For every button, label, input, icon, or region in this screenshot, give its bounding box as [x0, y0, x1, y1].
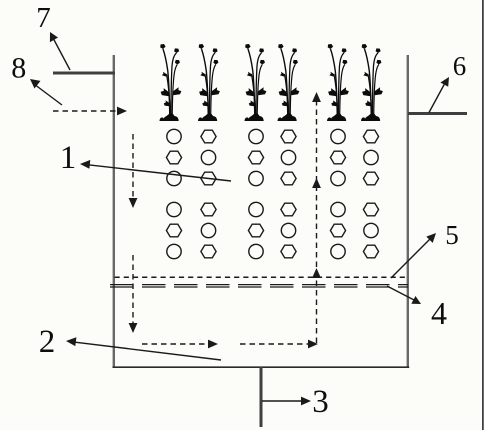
media hexagon c6r3 [363, 172, 378, 185]
media hexagon c4r1 [281, 130, 296, 143]
media hexagon c3r2 [248, 151, 263, 164]
svg-text:6: 6 [453, 51, 467, 81]
svg-text:5: 5 [445, 220, 459, 250]
media circle c3r1 [249, 129, 263, 143]
svg-text:3: 3 [312, 384, 329, 420]
media circle c2r2 [201, 150, 215, 164]
media hexagon c2r1 [201, 130, 216, 143]
media hexagon c5r5 [330, 224, 345, 237]
dotted support plate line 5 [115, 276, 409, 278]
inlet pipe 7 [53, 72, 115, 75]
plant 2 [198, 44, 220, 121]
leader arrow to 1 [80, 160, 231, 181]
leader arrow to 3 [262, 397, 311, 406]
plant 1 [160, 44, 182, 121]
media hexagon c1r5 [166, 224, 181, 237]
media hexagon c4r3 [281, 172, 296, 185]
leader arrow to 6 [429, 77, 449, 113]
scan border line right edge [482, 0, 484, 430]
leader arrow to 4 [387, 286, 421, 304]
plant 4 [278, 44, 300, 121]
bottom flow dashed arrow right [240, 340, 318, 349]
svg-text:2: 2 [39, 324, 56, 360]
media circle c3r4 [249, 202, 263, 216]
leader arrow to 2 [66, 337, 221, 360]
media circle c6r2 [364, 150, 378, 164]
media hexagon c2r6 [201, 245, 216, 258]
media circle c3r3 [249, 171, 263, 185]
perforated plate double line 4 [110, 284, 408, 286]
media hexagon c2r4 [201, 203, 216, 216]
media circle c4r5 [281, 223, 295, 237]
svg-text:1: 1 [60, 140, 77, 176]
media hexagon c6r6 [363, 245, 378, 258]
leader arrow to 5 [391, 233, 436, 278]
downflow dashed arrow lower [129, 255, 138, 333]
media circle c1r3 [167, 171, 181, 185]
svg-text:4: 4 [431, 295, 447, 331]
tank bottom [113, 366, 410, 368]
media circle c6r5 [364, 223, 378, 237]
bottom drain pipe 3 [260, 367, 263, 427]
media hexagon c1r2 [166, 151, 181, 164]
media hexagon c2r3 [201, 172, 216, 185]
media circle c5r3 [331, 171, 345, 185]
plant 5 [327, 44, 349, 121]
media hexagon c6r1 [363, 130, 378, 143]
outlet pipe 6 [408, 112, 467, 115]
media circle c4r2 [281, 150, 295, 164]
media circle c5r1 [331, 129, 345, 143]
svg-text:8: 8 [11, 52, 26, 85]
upflow dashed arrow center [312, 92, 321, 343]
tank right wall [407, 55, 409, 368]
inlet flow dashed arrow [53, 107, 127, 116]
media circle c3r6 [249, 244, 263, 258]
media bed shapes [166, 129, 378, 258]
media circle c1r6 [167, 244, 181, 258]
media circle c5r6 [331, 244, 345, 258]
downflow dashed arrow upper [129, 134, 138, 208]
media circle c5r4 [331, 202, 345, 216]
tank left wall [113, 55, 115, 368]
plant 6 [361, 44, 383, 121]
leader arrow to 7 [50, 32, 70, 70]
bottom flow dashed arrow left [142, 340, 218, 349]
media hexagon c4r4 [281, 203, 296, 216]
svg-text:7: 7 [36, 2, 51, 34]
media circle c2r5 [201, 223, 215, 237]
plant 3 [245, 44, 267, 121]
media hexagon c3r5 [248, 224, 263, 237]
media hexagon c6r4 [363, 203, 378, 216]
media circle c1r1 [167, 129, 181, 143]
media hexagon c5r2 [330, 151, 345, 164]
leader arrow to 8 [30, 79, 62, 105]
media hexagon c4r6 [281, 245, 296, 258]
media circle c1r4 [167, 202, 181, 216]
